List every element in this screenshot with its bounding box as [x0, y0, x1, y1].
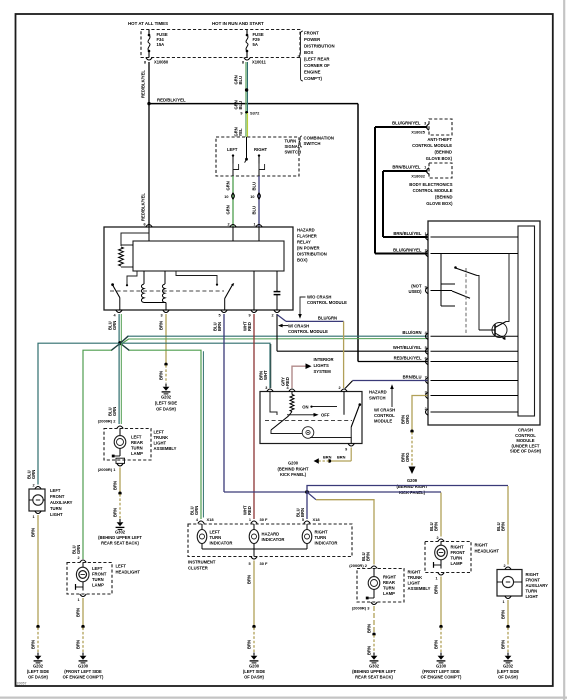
fuse F34 15A — [148, 30, 168, 58]
svg-text:OF DASH): OF DASH) — [28, 675, 48, 680]
svg-text:5: 5 — [248, 562, 250, 566]
svg-text:RED/BLK/YEL: RED/BLK/YEL — [394, 356, 422, 361]
svg-text:BRN: BRN — [366, 552, 371, 561]
wire BRN hazard switch to ground G200 — [314, 448, 352, 464]
svg-text:RELAY: RELAY — [297, 240, 311, 245]
wire BLU/BRN relay pin5 down — [212, 314, 224, 492]
svg-text:(FRONT LEFT SIDE: (FRONT LEFT SIDE — [64, 669, 102, 674]
crash module pin 9 — [425, 285, 428, 293]
svg-text:ON: ON — [302, 404, 308, 409]
svg-text:2: 2 — [271, 314, 273, 318]
svg-text:BRN: BRN — [246, 640, 251, 649]
svg-text:X10080: X10080 — [154, 60, 169, 65]
wire BRN right rear lamp to ground G302 — [366, 606, 375, 655]
svg-text:(BEHIND RIGHT: (BEHIND RIGHT — [397, 484, 428, 489]
svg-text:BOX): BOX) — [297, 258, 308, 263]
svg-text:X18: X18 — [313, 517, 321, 522]
svg-text:FRONT: FRONT — [50, 494, 65, 499]
relay pin 5 bottom — [218, 310, 227, 318]
connector at right headlight — [438, 539, 444, 542]
svg-text:HAZARD: HAZARD — [262, 532, 280, 537]
svg-text:RED/BLK/YEL: RED/BLK/YEL — [141, 70, 146, 98]
connector X10011 — [242, 58, 267, 65]
svg-text:CORNER OF: CORNER OF — [304, 63, 330, 68]
svg-text:ASSEMBLY: ASSEMBLY — [408, 586, 431, 591]
crash module pin 1 — [393, 231, 428, 240]
wire BRN relay pin3 to ground G202 — [158, 314, 167, 383]
svg-text:RIGHT: RIGHT — [254, 147, 267, 152]
crash module pin 4 — [402, 330, 428, 339]
svg-text:G100: G100 — [436, 664, 447, 669]
wire BLU/BRN label at right rear lamp — [349, 552, 370, 568]
svg-text:COMBINATION: COMBINATION — [304, 136, 334, 141]
svg-text:REAR: REAR — [131, 440, 143, 445]
left trunk light assembly (dashed box) — [104, 429, 177, 461]
svg-text:BRN: BRN — [158, 371, 163, 380]
relay internal: capacitor on pin 2 leg — [274, 271, 281, 310]
svg-text:1: 1 — [435, 577, 437, 581]
svg-text:GRN: GRN — [112, 321, 117, 330]
connector 2000R-3 at right rear lamp — [352, 602, 377, 610]
svg-text:(NOT: (NOT — [411, 284, 422, 289]
svg-text:BLU/GRN/YEL: BLU/GRN/YEL — [393, 248, 422, 253]
right turn indicator lamp — [302, 524, 337, 549]
svg-text:2: 2 — [77, 556, 79, 560]
ground G209 — [397, 478, 428, 495]
svg-text:FLASHER: FLASHER — [297, 234, 317, 239]
svg-text:CONTROL MODULE: CONTROL MODULE — [413, 188, 453, 193]
svg-text:1: 1 — [253, 223, 255, 227]
svg-text:(BEHIND UPPER LEFT: (BEHIND UPPER LEFT — [98, 535, 142, 540]
svg-text:RIGHT: RIGHT — [475, 543, 488, 548]
wire RED/BLK/YEL to crash pin 6 — [358, 361, 428, 363]
svg-text:ASSEMBLY: ASSEMBLY — [154, 446, 177, 451]
svg-text:5: 5 — [218, 314, 220, 318]
svg-text:OF DASH): OF DASH) — [498, 675, 518, 680]
relay internal: pin 9 wire — [253, 271, 255, 310]
svg-text:OF DASH): OF DASH) — [244, 675, 264, 680]
cluster internal ground bus — [202, 549, 307, 557]
svg-text:DISTRIBUTION: DISTRIBUTION — [297, 252, 327, 257]
wire BRN/WHT label on teal branch — [258, 370, 268, 390]
svg-text:G209: G209 — [407, 478, 418, 483]
svg-text:REAR SEAT BACK): REAR SEAT BACK) — [355, 675, 393, 680]
svg-text:30 F: 30 F — [260, 561, 269, 566]
svg-text:(2000R) 3: (2000R) 3 — [352, 605, 371, 610]
wire WHT/RED relay pin9 to hazard indicator — [242, 314, 254, 519]
svg-text:LIGHTS: LIGHTS — [314, 363, 330, 368]
left headlight (dashed box) — [67, 563, 140, 595]
left front turn lamp — [76, 563, 107, 591]
connector on BLU wire — [258, 193, 261, 199]
svg-text:BLU/GRN/YEL: BLU/GRN/YEL — [392, 120, 421, 125]
svg-text:SIDE OF DASH): SIDE OF DASH) — [510, 449, 542, 454]
svg-text:TURN: TURN — [526, 589, 538, 594]
svg-text:BRN: BRN — [300, 508, 305, 517]
svg-text:9: 9 — [240, 112, 242, 116]
wire RED/BLK/YEL horizontal to crash module — [149, 98, 358, 362]
ground G202 (relay) — [155, 384, 178, 412]
wire GRN/BLU from fuse F29 — [233, 62, 247, 113]
wire BLU/BRN label at right headlight — [429, 522, 439, 540]
crash module pin 3 — [425, 390, 428, 398]
svg-text:BRN: BRN — [246, 575, 251, 584]
svg-text:BRN: BRN — [433, 640, 438, 649]
svg-text:CONTROL: CONTROL — [374, 413, 395, 418]
right rear turn lamp — [366, 569, 397, 600]
wire BLU/BRN label at right front aux — [496, 522, 506, 568]
crash module pin 6 — [394, 356, 428, 365]
node left-turn distribution junction — [118, 341, 122, 345]
ground G202 (left side of dash) — [497, 653, 520, 680]
svg-text:BRN: BRN — [323, 455, 332, 460]
svg-text:RED: RED — [247, 506, 252, 515]
relay pin 6 top — [143, 223, 152, 227]
svg-text:(LEFT SIDE: (LEFT SIDE — [243, 669, 266, 674]
svg-text:BRN/BLU: BRN/BLU — [403, 375, 422, 380]
ground G200 (left side of dash) — [243, 653, 266, 680]
wire BLU/GRN junction diagonals — [111, 336, 130, 351]
wire BLU/GRN relay pin2 diagonal to hazard switch — [277, 315, 344, 389]
svg-text:6: 6 — [143, 223, 145, 227]
svg-text:BRN: BRN — [158, 321, 163, 330]
wire BLU/GRN pair down to left rear turn lamp — [107, 343, 121, 424]
svg-text:TURN: TURN — [131, 446, 143, 451]
relay pin 2 bottom — [271, 310, 280, 318]
relay internal: feed wiring and resistor — [119, 227, 259, 267]
svg-text:SYSTEM: SYSTEM — [314, 369, 332, 374]
svg-text:TURN: TURN — [451, 556, 463, 561]
svg-text:TRUNK: TRUNK — [408, 575, 423, 580]
svg-text:2: 2 — [503, 564, 505, 568]
svg-text:INDICATOR: INDICATOR — [262, 537, 285, 542]
svg-text:WHT: WHT — [263, 370, 268, 380]
svg-text:BLU: BLU — [238, 101, 243, 110]
relay pin 1 top — [253, 223, 262, 227]
svg-text:30 F: 30 F — [260, 517, 269, 522]
relay pin 2 top — [227, 223, 236, 227]
svg-text:5A: 5A — [253, 42, 258, 47]
svg-text:HOT AT ALL TIMES: HOT AT ALL TIMES — [128, 21, 168, 26]
svg-text:RIGHT: RIGHT — [526, 572, 539, 577]
svg-text:(BEHIND RIGHT: (BEHIND RIGHT — [278, 467, 309, 472]
connector at right rear lamp — [371, 566, 377, 569]
svg-text:INDICATOR: INDICATOR — [210, 541, 233, 546]
ground G302 (behind upper left rear seat back) — [352, 653, 396, 680]
svg-text:10: 10 — [250, 195, 254, 199]
svg-text:1: 1 — [249, 518, 251, 522]
svg-text:2: 2 — [338, 386, 340, 390]
connector at right front aux — [505, 567, 511, 570]
right trunk light assembly (dashed box) — [357, 569, 431, 603]
svg-text:OFF: OFF — [321, 413, 330, 418]
svg-text:LEFT: LEFT — [116, 564, 127, 569]
hazard flasher relay K-hazard (in power distribution box) — [104, 227, 327, 310]
label W/ CRASH CONTROL MODULE (relay side) — [278, 324, 328, 335]
wire RED/BLK/YEL from fuse F34 down to relay — [141, 62, 149, 227]
combination switch label — [299, 136, 334, 148]
svg-text:9: 9 — [248, 314, 250, 318]
svg-text:(BEHIND: (BEHIND — [435, 195, 452, 200]
wire BLU/GRN to left headlight — [71, 545, 81, 560]
svg-text:HEADLIGHT: HEADLIGHT — [475, 549, 500, 554]
svg-text:(BEHIND: (BEHIND — [435, 150, 452, 155]
svg-text:LAMP: LAMP — [383, 591, 395, 596]
svg-text:HAZARD: HAZARD — [297, 228, 315, 233]
svg-text:LEFT: LEFT — [92, 566, 103, 571]
svg-text:RED: RED — [285, 377, 290, 386]
wire teal branch left to left front aux light — [38, 343, 119, 484]
relay pin 4 bottom — [113, 310, 122, 318]
svg-text:LEFT: LEFT — [131, 435, 142, 440]
svg-text:CLUSTER: CLUSTER — [188, 566, 208, 571]
svg-text:G302: G302 — [369, 664, 380, 669]
svg-text:LEFT: LEFT — [154, 430, 165, 435]
svg-text:BRN: BRN — [501, 522, 506, 531]
crash module internal switch — [441, 254, 479, 334]
svg-text:CONTROL MODULE: CONTROL MODULE — [288, 329, 328, 334]
svg-text:BLU/GRN: BLU/GRN — [402, 330, 421, 335]
svg-text:(IN POWER: (IN POWER — [297, 246, 320, 251]
svg-text:BRN/BLU/YEL: BRN/BLU/YEL — [392, 164, 421, 169]
svg-text:OF DASH): OF DASH) — [156, 407, 176, 412]
wire BLU/GRN label at cluster — [189, 506, 199, 515]
turn signal switch LEFT contact — [232, 154, 239, 176]
crash module pin 7 — [403, 375, 428, 384]
svg-text:(LEFT SIDE: (LEFT SIDE — [497, 669, 520, 674]
cluster bottom connector 5 30F — [248, 557, 268, 567]
svg-text:BRN: BRN — [75, 608, 80, 617]
svg-text:BRN: BRN — [75, 640, 80, 649]
svg-text:AUXILIARY: AUXILIARY — [526, 583, 549, 588]
svg-text:POWER: POWER — [304, 37, 321, 42]
hazard switch pin 3 — [267, 389, 273, 392]
svg-text:RED/BLK/YEL: RED/BLK/YEL — [141, 193, 146, 221]
svg-text:BRN: BRN — [112, 508, 117, 517]
svg-text:(2000R) 1: (2000R) 1 — [98, 467, 117, 472]
svg-text:SWITCH: SWITCH — [369, 396, 386, 401]
anti-theft control module X18025 (dashed) — [392, 119, 452, 161]
relay pin 3 bottom — [160, 310, 169, 318]
wire BRN/BLU/YEL bus to body electronics module and crash pin 1 (thick) — [383, 171, 428, 237]
svg-text:FRONT: FRONT — [451, 550, 466, 555]
svg-text:LEFT: LEFT — [50, 488, 61, 493]
cluster connector 5 X18 — [302, 517, 321, 524]
svg-text:1: 1 — [32, 515, 34, 519]
wire BRN right headlight to ground — [433, 577, 442, 653]
ground G302 (behind upper left rear seat back) — [98, 519, 142, 546]
relay internal: left contact to pin 4 — [111, 271, 137, 310]
svg-text:5: 5 — [302, 518, 304, 522]
svg-text:10: 10 — [224, 195, 228, 199]
hazard switch pin 2 — [338, 386, 347, 391]
ground G200 (behind right kick panel) — [278, 461, 309, 478]
crash module pin 2 — [425, 407, 428, 415]
turn signal switch common contact — [245, 137, 248, 163]
wire GRN/YEL to turn signal switch — [233, 113, 247, 137]
svg-text:FRONT: FRONT — [304, 31, 319, 36]
relay internal: coil — [141, 271, 166, 310]
left front aux light pin 1 — [32, 511, 41, 519]
wire BRN cluster to ground G200 — [246, 561, 255, 653]
wire BRN left headlight to ground — [75, 598, 84, 652]
svg-text:SWITCH: SWITCH — [304, 141, 321, 146]
svg-text:G302: G302 — [115, 530, 126, 535]
svg-text:(LEFT SIDE: (LEFT SIDE — [155, 401, 178, 406]
instrument cluster (dashed box) — [188, 524, 352, 571]
svg-text:X18025: X18025 — [411, 129, 426, 134]
svg-text:(LEFT SIDE: (LEFT SIDE — [27, 669, 50, 674]
connector X10080 — [144, 58, 169, 65]
connector on GRN wire — [232, 193, 235, 199]
svg-text:G202: G202 — [33, 664, 44, 669]
svg-text:BLU: BLU — [251, 206, 256, 215]
svg-text:2: 2 — [425, 249, 427, 253]
svg-text:RIGHT: RIGHT — [408, 570, 421, 575]
wire BLU/GRN pair to crash module pin 4 — [128, 336, 428, 339]
svg-text:G200: G200 — [249, 664, 260, 669]
left front auxiliary turn light — [29, 488, 73, 517]
turn signal switch RIGHT contact — [258, 154, 265, 176]
svg-text:5: 5 — [425, 346, 427, 350]
svg-text:(FRONT LEFT SIDE: (FRONT LEFT SIDE — [422, 669, 460, 674]
crash module pin 5 — [393, 345, 428, 354]
svg-text:HEADLIGHT: HEADLIGHT — [116, 570, 141, 575]
ground G202 (left side of dash) — [27, 653, 50, 680]
left rear turn lamp — [112, 429, 143, 464]
svg-text:USED): USED) — [408, 289, 422, 294]
svg-text:1: 1 — [502, 600, 504, 604]
svg-text:FRONT: FRONT — [526, 578, 541, 583]
svg-text:ANTI-THEFT: ANTI-THEFT — [427, 137, 452, 142]
svg-text:LEFT: LEFT — [210, 530, 221, 535]
svg-text:BRN/BLU/YEL: BRN/BLU/YEL — [393, 231, 422, 236]
svg-text:2: 2 — [227, 223, 229, 227]
svg-text:GRN: GRN — [112, 407, 117, 416]
wire BLU/GRN relay pin4 down to junction — [107, 314, 121, 343]
wire BLU/GRN/YEL bus to anti-theft module and crash pin 2 (thick) — [375, 127, 428, 254]
wire BLU/BRN branch to right rear lamp — [308, 493, 375, 565]
svg-text:GRN: GRN — [76, 545, 81, 554]
svg-text:RED/BLK/YEL: RED/BLK/YEL — [157, 98, 186, 103]
splice S372 — [240, 111, 260, 116]
svg-text:BODY ELECTRONICS: BODY ELECTRONICS — [409, 182, 452, 187]
svg-text:X10011: X10011 — [252, 60, 267, 65]
connector 2000R-1 at left rear lamp — [98, 463, 123, 472]
wire GRY/RED to interior lights system — [280, 357, 333, 388]
ground G100 (front left side of engine compt) — [63, 653, 104, 680]
svg-text:BRN: BRN — [30, 528, 35, 537]
wire BLU/BRN branch to right front aux — [307, 486, 508, 565]
crash module internal transistor — [479, 254, 509, 341]
svg-text:LIGHT: LIGHT — [50, 512, 63, 517]
svg-text:LIGHT: LIGHT — [408, 581, 421, 586]
hazard switch lamp — [302, 427, 314, 439]
svg-text:YEL: YEL — [238, 128, 243, 137]
svg-text:SWITCH: SWITCH — [285, 150, 302, 155]
svg-text:TURN: TURN — [210, 535, 222, 540]
svg-text:TURN: TURN — [50, 506, 62, 511]
connector at left headlight — [80, 560, 86, 563]
svg-text:ENGINE: ENGINE — [304, 70, 321, 75]
svg-text:FRONT: FRONT — [92, 572, 107, 577]
svg-text:CRASH: CRASH — [518, 428, 533, 433]
wire BRN/BLU hazard pin2 to crash pin 7 — [345, 381, 428, 389]
wire relay pin2 vertical to WHT/BLU/YEL line — [277, 314, 428, 351]
wire BLU/GRN to left front aux light — [26, 470, 36, 488]
cluster connector 4 X18 — [196, 517, 215, 524]
svg-text:BOX: BOX — [304, 50, 313, 55]
svg-text:TURN: TURN — [285, 139, 297, 144]
right front aux pin 1 — [502, 596, 511, 604]
cluster connector 1 30F — [249, 517, 268, 524]
svg-text:9: 9 — [345, 448, 347, 452]
svg-text:X18032: X18032 — [411, 173, 426, 178]
svg-text:BLU: BLU — [238, 76, 243, 85]
svg-text:GLOVE BOX): GLOVE BOX) — [426, 156, 453, 161]
hazard switch — [260, 390, 387, 444]
svg-text:3: 3 — [160, 314, 162, 318]
svg-text:(2000R) 2: (2000R) 2 — [349, 563, 368, 568]
corner stamp — [17, 682, 27, 686]
hazard switch internals — [265, 392, 361, 444]
node right-turn junction — [305, 490, 309, 494]
svg-text:1: 1 — [424, 165, 426, 169]
svg-text:2: 2 — [32, 483, 34, 487]
svg-text:GRN: GRN — [194, 506, 199, 515]
label W/O CRASH CONTROL MODULE — [298, 295, 347, 319]
svg-text:(2000R) 2: (2000R) 2 — [98, 418, 117, 423]
svg-text:3: 3 — [424, 121, 426, 125]
wire teal branch right to hazard switch pin 3 — [121, 343, 271, 388]
svg-text:RIGHT: RIGHT — [383, 575, 396, 580]
svg-text:X18: X18 — [207, 517, 215, 522]
crash module internal wiring — [431, 237, 519, 412]
body electronics control module X18032 (dashed) — [392, 163, 453, 206]
svg-text:9: 9 — [425, 285, 427, 289]
svg-text:1: 1 — [77, 598, 79, 602]
svg-text:15A: 15A — [157, 42, 165, 47]
relay internal: right contact to pin 5 — [176, 271, 234, 310]
svg-text:INTERIOR: INTERIOR — [314, 357, 334, 362]
svg-text:G200: G200 — [288, 461, 299, 466]
svg-text:W/ CRASH: W/ CRASH — [374, 408, 395, 413]
svg-text:INSTRUMENT: INSTRUMENT — [188, 560, 216, 565]
crash control module (under left side of dash) — [428, 221, 542, 454]
svg-text:W/O CRASH: W/O CRASH — [307, 295, 331, 300]
label front power distribution box — [299, 31, 335, 82]
connector 2000R-2 at left rear lamp — [98, 418, 123, 428]
wire BRN right front aux to ground — [500, 600, 509, 652]
svg-text:BRN: BRN — [434, 522, 439, 531]
svg-text:TURN: TURN — [315, 535, 327, 540]
svg-text:OF ENGINE COMP'T): OF ENGINE COMP'T) — [63, 675, 104, 680]
svg-text:BRN: BRN — [30, 640, 35, 649]
svg-text:GRN: GRN — [225, 205, 230, 214]
svg-text:OF ENGINE COMP'T): OF ENGINE COMP'T) — [421, 675, 462, 680]
svg-text:BRN: BRN — [433, 585, 438, 594]
svg-text:BRN: BRN — [217, 322, 222, 331]
left turn indicator lamp — [197, 524, 232, 549]
svg-text:GRN: GRN — [225, 181, 230, 190]
svg-text:COMP'T): COMP'T) — [304, 76, 323, 81]
wire BRN left front aux to ground — [30, 515, 39, 652]
svg-text:1: 1 — [425, 232, 427, 236]
svg-text:7: 7 — [425, 376, 427, 380]
svg-text:BRN: BRN — [366, 646, 371, 655]
svg-text:HAZARD: HAZARD — [369, 390, 387, 395]
svg-text:DISTRIBUTION: DISTRIBUTION — [304, 44, 335, 49]
